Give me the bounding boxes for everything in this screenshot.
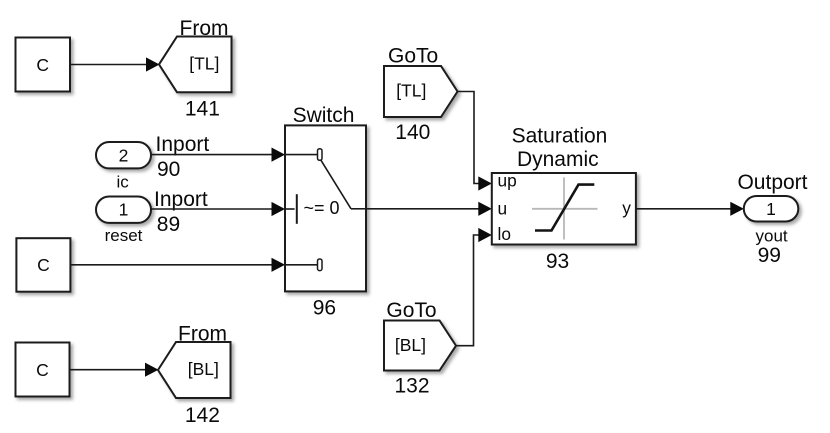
svg-text:90: 90 bbox=[157, 158, 180, 181]
svg-text:u: u bbox=[498, 198, 508, 218]
inport reset (1) bbox=[96, 188, 208, 245]
From block [TL] 141 bbox=[159, 17, 232, 120]
saturation icon bbox=[532, 177, 598, 239]
wire C3 to From[BL] bbox=[70, 363, 159, 377]
svg-text:From: From bbox=[180, 17, 229, 40]
svg-text:141: 141 bbox=[185, 97, 220, 120]
constant C2 bbox=[16, 238, 70, 292]
svg-text:ic: ic bbox=[116, 172, 129, 191]
switch internals bbox=[285, 149, 366, 271]
goto block [TL] 140 bbox=[384, 44, 458, 144]
svg-text:y: y bbox=[622, 198, 631, 218]
svg-text:GoTo: GoTo bbox=[386, 299, 436, 322]
svg-text:GoTo: GoTo bbox=[388, 44, 438, 67]
svg-text:Dynamic: Dynamic bbox=[517, 148, 599, 171]
svg-text:From: From bbox=[178, 322, 227, 345]
svg-text:C: C bbox=[37, 255, 50, 275]
svg-text:Inport: Inport bbox=[154, 188, 208, 211]
goto block [BL] 132 bbox=[384, 299, 456, 398]
saturation dynamic block 93 bbox=[492, 125, 636, 273]
wire goto TL to saturation up bbox=[458, 92, 492, 191]
svg-text:yout: yout bbox=[756, 226, 788, 245]
svg-text:[TL]: [TL] bbox=[396, 81, 426, 101]
svg-text:89: 89 bbox=[157, 213, 180, 236]
svg-text:~= 0: ~= 0 bbox=[304, 198, 340, 218]
wire goto BL to saturation lo bbox=[456, 228, 492, 346]
svg-text:99: 99 bbox=[758, 244, 781, 267]
svg-text:[BL]: [BL] bbox=[188, 359, 219, 379]
constant C1 bbox=[16, 38, 71, 92]
svg-text:132: 132 bbox=[394, 374, 429, 397]
svg-text:C: C bbox=[36, 55, 49, 75]
inport ic (2) bbox=[96, 133, 209, 191]
svg-text:93: 93 bbox=[546, 250, 569, 273]
wire C2 to switch in3 bbox=[71, 258, 286, 272]
svg-text:1: 1 bbox=[766, 199, 776, 219]
svg-text:[TL]: [TL] bbox=[189, 53, 219, 73]
svg-text:reset: reset bbox=[105, 226, 143, 245]
wire saturation y to outport bbox=[636, 202, 744, 216]
constant C3 bbox=[16, 343, 70, 397]
wire switch to saturation u bbox=[366, 202, 492, 216]
svg-text:140: 140 bbox=[395, 121, 430, 144]
wire C1 to From[TL] bbox=[71, 57, 160, 71]
svg-text:[BL]: [BL] bbox=[395, 335, 426, 355]
svg-text:1: 1 bbox=[119, 200, 129, 220]
wire inport1 to switch in2 bbox=[152, 202, 286, 216]
svg-text:Switch: Switch bbox=[293, 104, 355, 127]
switch block 96 bbox=[285, 104, 366, 319]
svg-text:lo: lo bbox=[498, 224, 511, 244]
svg-text:96: 96 bbox=[313, 296, 336, 319]
outport yout (1) bbox=[737, 171, 807, 267]
svg-text:C: C bbox=[36, 360, 49, 380]
svg-text:142: 142 bbox=[185, 404, 220, 427]
From block [BL] 142 bbox=[158, 322, 231, 427]
svg-text:2: 2 bbox=[119, 145, 129, 165]
svg-text:Inport: Inport bbox=[156, 133, 210, 156]
svg-text:Outport: Outport bbox=[737, 171, 807, 194]
svg-text:Saturation: Saturation bbox=[512, 125, 608, 148]
wire inport2 to switch in1 bbox=[152, 148, 286, 162]
svg-text:up: up bbox=[498, 171, 517, 191]
